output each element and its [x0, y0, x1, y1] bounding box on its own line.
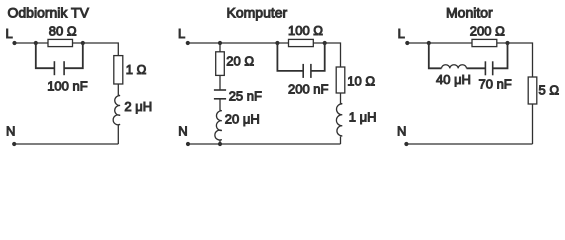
svg-text:25 nF: 25 nF: [229, 88, 262, 103]
svg-text:L: L: [398, 26, 405, 41]
svg-text:5 Ω: 5 Ω: [539, 82, 560, 97]
svg-text:20 Ω: 20 Ω: [226, 53, 254, 68]
svg-text:200 nF: 200 nF: [288, 81, 329, 96]
svg-text:70 nF: 70 nF: [479, 77, 512, 92]
svg-text:40 μH: 40 μH: [436, 72, 471, 87]
svg-text:200 Ω: 200 Ω: [470, 23, 505, 38]
svg-text:L: L: [178, 26, 185, 41]
svg-text:1 Ω: 1 Ω: [126, 62, 147, 77]
svg-text:2 μH: 2 μH: [124, 99, 152, 114]
svg-text:N: N: [397, 124, 406, 139]
svg-text:N: N: [6, 124, 15, 139]
svg-text:Odbiornik TV: Odbiornik TV: [8, 5, 90, 21]
svg-text:100 nF: 100 nF: [47, 78, 88, 93]
svg-text:80 Ω: 80 Ω: [49, 23, 77, 38]
svg-text:Monitor: Monitor: [446, 5, 493, 21]
svg-text:100 Ω: 100 Ω: [288, 23, 323, 38]
svg-text:L: L: [6, 26, 13, 41]
svg-text:N: N: [178, 124, 187, 139]
svg-text:1 μH: 1 μH: [349, 110, 377, 125]
svg-text:10 Ω: 10 Ω: [347, 73, 375, 88]
svg-text:20 μH: 20 μH: [225, 111, 260, 126]
svg-text:Komputer: Komputer: [227, 5, 288, 21]
